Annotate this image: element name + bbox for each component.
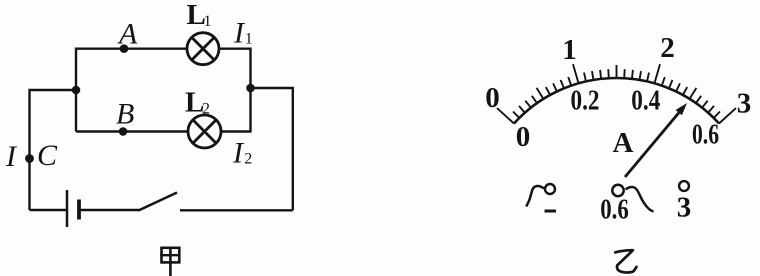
wire battery left [30,209,67,211]
svg-text:3: 3 [677,192,692,224]
terminal 0.6 circle [612,185,623,196]
svg-text:A: A [117,18,138,51]
svg-text:0.4: 0.4 [631,85,660,117]
svg-text:1: 1 [245,31,253,48]
meter arc [514,78,719,124]
svg-text:2: 2 [202,101,210,118]
svg-text:1: 1 [562,34,577,66]
wire top branch left segment [76,49,187,132]
terminal minus circle [545,184,555,194]
node A dot [120,44,129,53]
terminal minus sign [545,210,557,213]
terminal 0.6 squiggle [626,187,654,211]
svg-text:I: I [5,140,18,173]
wire right feed [251,88,293,210]
wire top branch right segment [219,49,251,132]
svg-text:B: B [116,98,134,131]
svg-text:0.6: 0.6 [692,119,719,151]
lamp L1 symbol [187,33,219,65]
needle [625,108,683,177]
svg-text:0: 0 [516,121,531,153]
battery long plate [66,190,69,227]
svg-text:2: 2 [244,151,252,168]
svg-text:1: 1 [204,13,212,30]
wire bottom branch right segment [221,130,252,132]
svg-text:3: 3 [737,88,752,120]
meter ticks [497,64,736,123]
lamp L2 symbol [188,115,221,148]
wire left feed [30,90,77,210]
wire battery to switch [81,209,140,211]
junction right dot [246,84,255,93]
label yi (乙) [615,250,636,272]
switch S blade [139,193,178,211]
label I2 [232,137,252,170]
node B dot [119,127,128,136]
terminal 3 circle [679,181,689,191]
node C dot [25,154,34,163]
svg-text:0.6: 0.6 [600,194,629,226]
label jia (甲) [162,248,180,275]
svg-text:A: A [613,127,634,159]
svg-text:C: C [37,139,58,172]
svg-text:0.2: 0.2 [571,85,600,117]
svg-text:2: 2 [660,32,675,64]
svg-text:I: I [232,137,245,170]
svg-text:0: 0 [485,82,500,114]
label I1 [233,17,253,50]
wire bottom branch left segment [76,130,188,132]
label L1 [187,0,212,31]
wire switch to right corner [180,209,293,211]
terminal minus squiggle [526,186,544,207]
junction left dot [72,86,81,95]
battery short plate [77,200,81,220]
label L2 [185,87,210,119]
needle arrowhead [676,103,687,115]
